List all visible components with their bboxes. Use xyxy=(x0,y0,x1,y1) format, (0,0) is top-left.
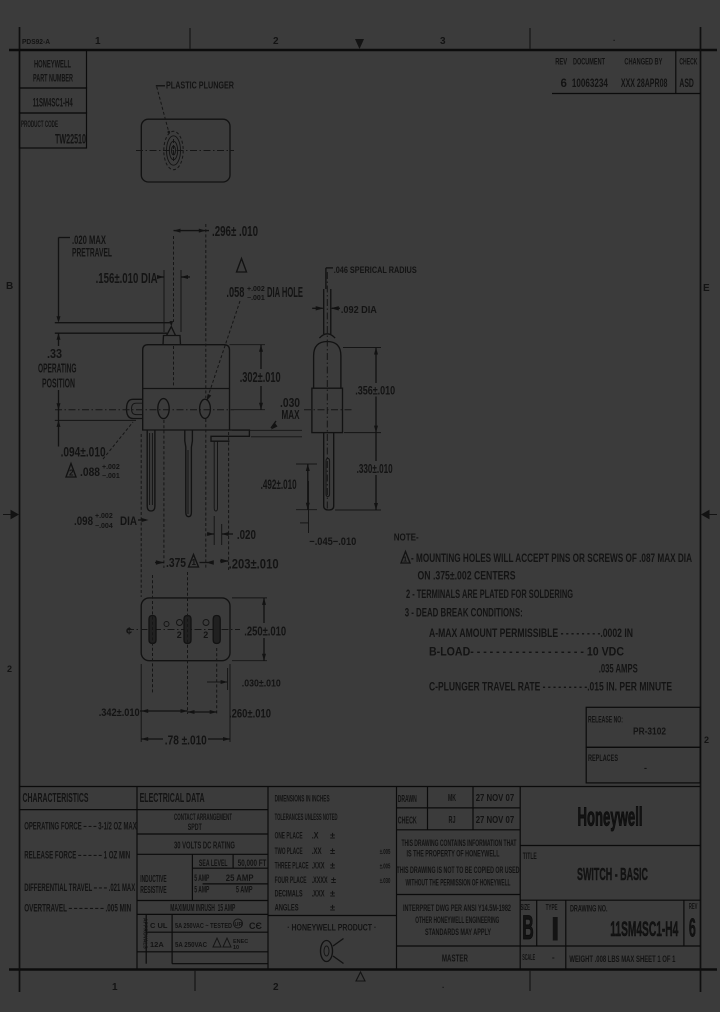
svg-text:.375: .375 xyxy=(166,555,186,570)
svg-text:-: - xyxy=(552,952,555,962)
svg-text:DIMENSIONS IN INCHES: DIMENSIONS IN INCHES xyxy=(275,793,330,803)
svg-text:.092 DIA: .092 DIA xyxy=(341,305,377,316)
svg-text:6: 6 xyxy=(689,912,696,942)
svg-text:.XXX: .XXX xyxy=(312,889,325,899)
svg-text:.: . xyxy=(442,981,444,990)
svg-text:TWO PLACE: TWO PLACE xyxy=(275,846,303,856)
svg-text:POSITION: POSITION xyxy=(42,376,75,391)
svg-text:DOCUMENT: DOCUMENT xyxy=(573,57,605,68)
svg-text:TITLE: TITLE xyxy=(523,851,537,861)
svg-text:DIFFERENTIAL TRAVEL – – – .021: DIFFERENTIAL TRAVEL – – – .021 MAX xyxy=(24,882,135,894)
svg-text:RESISTIVE: RESISTIVE xyxy=(140,885,166,896)
svg-text:MASTER: MASTER xyxy=(442,954,468,965)
svg-text:3 - DEAD BREAK CONDITIONS:: 3 - DEAD BREAK CONDITIONS: xyxy=(405,605,523,619)
svg-text:±.030: ±.030 xyxy=(380,876,391,885)
svg-text:.330±.010: .330±.010 xyxy=(357,462,393,476)
svg-text:FOUR PLACE: FOUR PLACE xyxy=(275,875,307,885)
svg-text:−.001: −.001 xyxy=(102,473,120,480)
svg-text:DRAWN: DRAWN xyxy=(398,794,417,805)
svg-text:SPDT: SPDT xyxy=(188,822,202,832)
svg-text:2: 2 xyxy=(273,36,279,47)
svg-text:2: 2 xyxy=(203,630,208,640)
svg-text:REV: REV xyxy=(689,902,698,911)
svg-text:5 AMP: 5 AMP xyxy=(236,885,253,895)
svg-text:30 VOLTS DC RATING: 30 VOLTS DC RATING xyxy=(174,841,235,852)
svg-text:ANGLES: ANGLES xyxy=(275,902,299,912)
svg-text:.058: .058 xyxy=(226,284,244,301)
svg-text:27 NOV 07: 27 NOV 07 xyxy=(476,792,515,804)
svg-text:±: ± xyxy=(330,846,335,856)
svg-text:50,000 FT: 50,000 FT xyxy=(238,858,267,868)
svg-text:.492±.010: .492±.010 xyxy=(261,477,297,492)
svg-text:±: ± xyxy=(331,875,336,885)
svg-text:-: - xyxy=(644,763,647,773)
svg-text:.020: .020 xyxy=(237,527,256,542)
svg-text:ELECTRICAL DATA: ELECTRICAL DATA xyxy=(140,791,205,805)
svg-text:OTHER HONEYWELL ENGINEERING: OTHER HONEYWELL ENGINEERING xyxy=(415,915,499,926)
svg-text:PRETRAVEL: PRETRAVEL xyxy=(72,246,112,260)
svg-text:OPERATING FORCE – – – 3-1/2 OZ: OPERATING FORCE – – – 3-1/2 OZ MAX xyxy=(24,820,137,832)
svg-text:CHECK: CHECK xyxy=(398,816,417,827)
svg-text:CHECK: CHECK xyxy=(679,57,697,68)
svg-text:SWITCH - BASIC: SWITCH - BASIC xyxy=(577,864,648,884)
svg-text:5A 250VAC: 5A 250VAC xyxy=(175,940,207,949)
svg-text:C-PLUNGER TRAVEL RATE - - - -: C-PLUNGER TRAVEL RATE - - - - - - - - -.… xyxy=(429,680,672,694)
svg-text:SCALE: SCALE xyxy=(522,952,535,962)
svg-text:12A: 12A xyxy=(150,940,164,949)
svg-text:2: 2 xyxy=(7,664,12,674)
svg-text:+.002: +.002 xyxy=(102,464,120,471)
svg-text:.XXX: .XXX xyxy=(312,861,325,871)
svg-text:.098: .098 xyxy=(74,514,93,528)
svg-text:PLASTIC PLUNGER: PLASTIC PLUNGER xyxy=(166,81,234,92)
svg-text:TW22510: TW22510 xyxy=(55,132,86,147)
svg-text:B: B xyxy=(6,281,13,292)
svg-text:11SM4SC1-H4: 11SM4SC1-H4 xyxy=(33,96,73,110)
svg-text:REPLACES: REPLACES xyxy=(588,753,618,763)
svg-text:PRODUCT CODE: PRODUCT CODE xyxy=(21,119,58,130)
svg-text:.156±.010 DIA: .156±.010 DIA xyxy=(96,270,158,287)
svg-text:−.004: −.004 xyxy=(95,523,113,530)
svg-text:DECIMALS: DECIMALS xyxy=(275,889,303,899)
svg-text:STANDARDS MAY APPLY: STANDARDS MAY APPLY xyxy=(425,927,491,938)
svg-text:.XX: .XX xyxy=(312,846,323,856)
svg-text:INTERPRET DWG PER ANSI Y14.5M-: INTERPRET DWG PER ANSI Y14.5M-1982 xyxy=(403,903,511,914)
svg-text:±: ± xyxy=(330,830,335,840)
svg-text:27 NOV 07: 27 NOV 07 xyxy=(476,814,515,826)
svg-text:10: 10 xyxy=(233,945,239,951)
svg-text:.X: .X xyxy=(312,830,320,840)
svg-text:RELEASE NO:: RELEASE NO: xyxy=(588,715,623,725)
svg-text:.030±.010: .030±.010 xyxy=(242,679,281,690)
svg-text:.035 AMPS: .035 AMPS xyxy=(599,662,638,676)
svg-text:· HONEYWELL PRODUCT ·: · HONEYWELL PRODUCT · xyxy=(287,923,376,933)
svg-text:WITHOUT THE PERMISSION OF HONE: WITHOUT THE PERMISSION OF HONEYWELL xyxy=(406,877,511,888)
svg-text:1: 1 xyxy=(403,555,407,564)
svg-text:XXX 28APR08: XXX 28APR08 xyxy=(621,78,668,90)
svg-text:C UL: C UL xyxy=(150,921,168,930)
svg-text:DIA HOLE: DIA HOLE xyxy=(267,284,303,301)
svg-text:6: 6 xyxy=(561,78,567,90)
svg-text:2: 2 xyxy=(273,982,279,993)
svg-text:RELEASE FORCE – – – – – 1 OZ M: RELEASE FORCE – – – – – 1 OZ MIN xyxy=(24,850,130,862)
svg-text:SEA LEVEL: SEA LEVEL xyxy=(199,858,228,868)
svg-text:2 - TERMINALS ARE PLATED FOR S: 2 - TERMINALS ARE PLATED FOR SOLDERING xyxy=(406,587,573,601)
svg-text:Honeywell: Honeywell xyxy=(578,802,643,832)
svg-text:.342±.010: .342±.010 xyxy=(99,707,140,719)
svg-text:+.002: +.002 xyxy=(247,286,265,293)
svg-text:.: . xyxy=(613,34,615,43)
svg-text:5A 250VAC ~ TESTED: 5A 250VAC ~ TESTED xyxy=(175,921,232,930)
svg-text:1: 1 xyxy=(95,36,101,47)
svg-text:¢: ¢ xyxy=(126,626,132,638)
svg-text:.302±.010: .302±.010 xyxy=(240,369,281,386)
svg-text:1: 1 xyxy=(112,982,118,993)
svg-text:.XXXX: .XXXX xyxy=(312,875,328,885)
svg-text:5 AMP: 5 AMP xyxy=(194,885,209,895)
svg-text:.088: .088 xyxy=(80,465,100,479)
svg-text:2: 2 xyxy=(704,735,709,745)
svg-text:PDS92-A: PDS92-A xyxy=(22,37,51,46)
svg-text:−.001: −.001 xyxy=(247,295,265,302)
svg-text:MAXIMUM INRUSH 15 AMP: MAXIMUM INRUSH 15 AMP xyxy=(170,903,235,914)
svg-text:.046 SPERICAL RADIUS: .046 SPERICAL RADIUS xyxy=(334,265,417,276)
svg-text:OVERTRAVEL – – – – – – – .005: OVERTRAVEL – – – – – – – .005 MIN xyxy=(24,902,131,914)
svg-text:MAX: MAX xyxy=(282,407,300,422)
svg-text:UR: UR xyxy=(235,922,243,928)
svg-text:REV: REV xyxy=(555,57,567,68)
svg-text:HONEYWELL: HONEYWELL xyxy=(34,59,71,71)
svg-text:11SM4SC1-H4: 11SM4SC1-H4 xyxy=(610,918,678,941)
svg-text:.296± .010: .296± .010 xyxy=(212,223,258,240)
svg-text:ONE PLACE: ONE PLACE xyxy=(275,830,303,840)
svg-text:APPROVALS: APPROVALS xyxy=(142,918,148,949)
svg-text:2: 2 xyxy=(177,630,182,640)
svg-text:WEIGHT .008 LBS MAX SHEET 1: WEIGHT .008 LBS MAX SHEET 1 OF 1 xyxy=(569,954,675,964)
svg-text:INDUCTIVE: INDUCTIVE xyxy=(140,874,166,885)
svg-text:THIS DRAWING IS NOT TO BE COPI: THIS DRAWING IS NOT TO BE COPIED OR USED xyxy=(397,865,520,876)
svg-text:THIS DRAWING CONTAINS INFORMAT: THIS DRAWING CONTAINS INFORMATION THAT xyxy=(402,838,517,849)
svg-text:±.005: ±.005 xyxy=(380,847,391,856)
svg-text:ASD: ASD xyxy=(679,78,694,90)
svg-text:CHANGED BY: CHANGED BY xyxy=(624,57,662,68)
svg-text:.356±.010: .356±.010 xyxy=(355,383,395,397)
svg-text:.260±.010: .260±.010 xyxy=(229,707,271,720)
svg-text:CHARACTERISTICS: CHARACTERISTICS xyxy=(23,791,89,805)
svg-text:.78 ±.010: .78 ±.010 xyxy=(165,732,207,747)
svg-text:CЄ: CЄ xyxy=(249,921,262,931)
svg-text:RJ: RJ xyxy=(449,815,456,826)
svg-text:.250±.010: .250±.010 xyxy=(244,624,286,639)
svg-text:OPERATING: OPERATING xyxy=(38,361,77,376)
svg-text:B: B xyxy=(522,909,534,947)
svg-text:THREE PLACE: THREE PLACE xyxy=(275,861,309,871)
svg-text:5 AMP: 5 AMP xyxy=(194,873,209,883)
svg-text:1: 1 xyxy=(192,558,197,567)
svg-text:E: E xyxy=(703,283,710,294)
svg-text:PR-3102: PR-3102 xyxy=(633,726,666,738)
svg-text:.094±.010: .094±.010 xyxy=(61,445,106,460)
svg-text:B-LOAD- - - - - - - - - - - -: B-LOAD- - - - - - - - - - - - - - - - - … xyxy=(429,644,624,658)
svg-text:±: ± xyxy=(330,889,335,899)
svg-text:DRAWING NO.: DRAWING NO. xyxy=(570,903,608,913)
svg-text:.33: .33 xyxy=(47,346,62,361)
svg-text:ON .375±.002 CENTERS: ON .375±.002 CENTERS xyxy=(418,569,516,583)
svg-text:25 AMP: 25 AMP xyxy=(226,873,254,883)
svg-text:IS THE PROPERTY OF HONEYWELL: IS THE PROPERTY OF HONEYWELL xyxy=(407,849,500,860)
svg-text:A-MAX AMOUNT PERMISSIBLE - - -: A-MAX AMOUNT PERMISSIBLE - - - - - - - -… xyxy=(429,626,633,640)
svg-text:TOLERANCES UNLESS NOTED: TOLERANCES UNLESS NOTED xyxy=(275,812,338,822)
svg-text:.203±.010: .203±.010 xyxy=(229,557,279,572)
svg-text:NOTE-: NOTE- xyxy=(394,532,419,544)
svg-text:±: ± xyxy=(330,902,335,912)
svg-text:3: 3 xyxy=(440,36,446,47)
svg-text:−.045−.010: −.045−.010 xyxy=(309,536,356,548)
svg-text:MK: MK xyxy=(448,793,456,804)
svg-text:±.005: ±.005 xyxy=(380,862,391,871)
svg-text:DIA: DIA xyxy=(120,514,137,528)
svg-text:CONTACT ARRANGEMENT: CONTACT ARRANGEMENT xyxy=(174,812,232,822)
svg-text:+.002: +.002 xyxy=(95,513,113,520)
svg-text:2: 2 xyxy=(69,469,74,478)
svg-text:10063234: 10063234 xyxy=(572,78,608,90)
svg-text:PART NUMBER: PART NUMBER xyxy=(33,73,73,85)
svg-text:I: I xyxy=(551,911,560,949)
svg-text:±: ± xyxy=(330,861,335,871)
svg-text:- MOUNTING HOLES WILL ACCEPT P: - MOUNTING HOLES WILL ACCEPT PINS OR SCR… xyxy=(411,551,692,565)
